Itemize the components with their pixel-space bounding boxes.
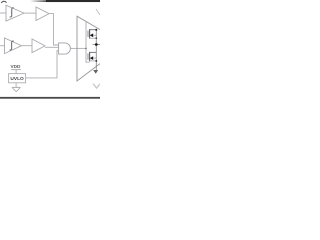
wire input IN1 [0,12,6,14]
gate bus [86,22,90,63]
bottom border line [0,97,100,99]
wire OUT [93,44,100,46]
node source Q2 [95,60,97,62]
wire UVLO to ground [15,83,17,88]
transistor Q1 (upper) [87,31,89,37]
wire AND output to driver [70,47,86,49]
wire squiggle top-left corner [1,1,6,3]
node source Q1 [95,37,97,39]
comparator A1 (with hysteresis) [6,5,24,21]
wire B2 to AND middle input [45,46,59,48]
wire A1 to B1 [24,12,36,14]
wire VDD to UVLO [15,70,17,74]
comparator A2 (with hysteresis) [5,38,22,54]
wire A2 to B2 [22,45,33,47]
ground arrow under driver [93,70,98,74]
output driver triangle (clipped at right) [77,16,100,81]
hysteresis symbol in A2 [10,41,14,50]
VDD rail bar [11,69,21,71]
hysteresis symbol in A1 [10,8,14,17]
svg-text:VDD: VDD [10,64,21,69]
svg-text:UVLO: UVLO [10,76,24,82]
ground symbol [12,86,21,88]
UVLO block [9,74,26,83]
buffer B1 [36,7,49,21]
node drain Q1 [95,29,97,31]
wire fragment top right [96,9,100,15]
wire B1 to AND top input [49,14,59,45]
drain/source rail (right vertical) [95,29,97,71]
buffer B2 [32,39,45,53]
transistor Q2 (lower) [87,53,89,59]
AND gate U1 [59,43,71,54]
node OUT junction [95,43,98,46]
wire input IN2 [0,45,5,47]
faint mark bottom right [93,84,100,88]
node gate-input junction [85,48,87,50]
wire UVLO to AND bottom input [26,51,59,78]
